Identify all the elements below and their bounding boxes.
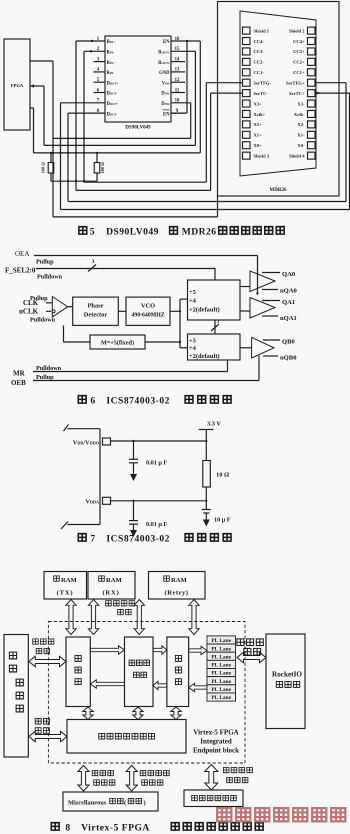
svg-text:100 Ω: 100 Ω [100,162,105,174]
svg-text:X0-: X0- [297,143,305,148]
svg-text:EN: EN [163,112,170,117]
divider A box [188,280,241,320]
svg-text:5: 5 [90,227,95,238]
pin VDD/VDDO [73,438,111,446]
svg-text:8: 8 [65,823,70,834]
svg-text:OEB: OEB [11,379,26,387]
IC edge with break marks [61,425,100,530]
svg-text:Phase: Phase [88,303,104,310]
svg-text:RocketIO: RocketIO [272,671,302,679]
svg-text:÷5: ÷5 [189,338,197,345]
svg-text:3: 3 [92,259,95,265]
FPGA U2 [4,39,30,130]
svg-text:PL Lane: PL Lane [211,671,231,677]
svg-text:(RX): (RX) [102,590,119,597]
svg-text:RIN-: RIN- [107,71,115,76]
svg-text:FPGA: FPGA [11,83,24,88]
wire pin8 net [68,113,105,201]
F_SEL bus into dividers [211,269,220,335]
label management interface [35,718,49,733]
svg-text:SerTFG+: SerTFG+ [286,81,305,86]
svg-text:ICS874003-02: ICS874003-02 [106,534,170,545]
output buffer QA1 [240,298,297,322]
svg-text:MR: MR [13,370,26,378]
wire pin2 net [84,50,105,182]
M divider feedback box [64,325,181,349]
wire FPGA in B with arrowhead [30,84,44,145]
bus line 2 under chip [44,144,195,146]
input buffer triangle [52,297,72,318]
watermark [217,808,345,821]
svg-text:CC4+: CC4+ [293,39,305,44]
wire loop SerTFG+ [68,83,346,202]
label clock reset interface [223,767,252,782]
svg-text:CC1-: CC1- [254,70,265,75]
wire VCO output to dividers [170,299,188,348]
svg-text:OEA: OEA [15,250,29,258]
arrow user-config [29,731,67,741]
svg-text:÷4: ÷4 [189,298,197,305]
VCO box [126,297,170,325]
Virtex-5 FPGA endpoint label [193,729,239,755]
label config status interface [140,770,169,785]
label transport layer interface [33,639,54,654]
svg-text:DOUT+: DOUT+ [107,102,119,107]
svg-text:Pullup: Pullup [30,295,48,302]
svg-text:MDR26: MDR26 [270,188,287,193]
bus line 3 under chip [34,152,201,154]
svg-text:Shield 3: Shield 3 [254,153,270,158]
capacitor C2 0.01uF [129,501,167,537]
bus line 1 under chip [53,137,191,139]
svg-text:QA0: QA0 [282,271,296,278]
svg-text:Miscellaneous: Miscellaneous [68,800,107,807]
svg-text:DOUT-: DOUT- [107,112,118,117]
wire FPGA out C [30,108,34,153]
svg-text:QA1: QA1 [282,299,295,306]
svg-text:X2+: X2+ [254,122,263,127]
wire PD to VCO [118,310,126,312]
svg-text:CC4-: CC4- [254,39,265,44]
resistor R3 10ohm [203,441,229,501]
arrows datalink-physical [153,646,167,690]
svg-text:X0+: X0+ [254,143,263,148]
svg-text:0.01 μ F: 0.01 μ F [146,521,167,528]
svg-text:X3+: X3+ [254,101,263,106]
wire pin16 EN net [171,40,200,153]
svg-text:Virtex-5 FPGA: Virtex-5 FPGA [81,823,150,834]
wire loop SerTFG- [84,83,243,183]
svg-text:÷4: ÷4 [189,345,197,352]
physical layer box [167,637,189,707]
svg-text:0.01 μ F: 0.01 μ F [146,460,167,467]
block RAM Retry box [149,572,206,600]
data link layer box [125,637,154,707]
svg-text:DIN1: DIN1 [161,92,170,97]
pin VDDA [85,497,110,505]
svg-text:6: 6 [90,396,95,407]
RAM interface arrows [66,600,199,635]
wire loop SerTC- [76,93,243,190]
label transceiver interface [237,639,263,655]
label OEB line [11,356,259,387]
MDR26 trapezoid body [240,11,316,193]
svg-text:Xclk-: Xclk- [294,112,305,117]
wire pin10 net [171,103,191,139]
svg-text:10 Ω: 10 Ω [216,472,229,479]
arrow PL-RocketIO [237,652,266,662]
svg-text:nCLK: nCLK [19,308,39,316]
wire resistor bottoms [51,180,97,182]
PL Lane stack [207,636,236,701]
svg-text:(Retry): (Retry) [165,590,189,597]
svg-text:7: 7 [90,534,95,545]
svg-text:RIN+: RIN+ [107,61,116,66]
RocketIO box [266,634,305,729]
svg-text:RAM: RAM [106,577,123,584]
svg-text:): ) [144,800,146,807]
output buffer QA0 [240,271,298,295]
svg-text:VDDA: VDDA [85,499,99,506]
svg-text:Shield 1: Shield 1 [254,28,270,33]
svg-text:DOUT+: DOUT+ [107,81,119,86]
svg-text:CC3+: CC3+ [293,49,305,54]
svg-text:RIN+: RIN+ [107,40,116,45]
svg-text:F_SEL2:0: F_SEL2:0 [5,267,36,275]
svg-text:nQB0: nQB0 [280,355,297,362]
svg-text:DIN2: DIN2 [161,102,170,107]
svg-text:EN: EN [163,40,170,45]
svg-text:490-640MHZ: 490-640MHZ [131,313,164,319]
svg-text:PL Lane: PL Lane [211,679,231,685]
svg-text:Pullup: Pullup [36,374,54,381]
arrows physical-PLlane [189,646,207,691]
caption figure 5 [79,227,284,238]
svg-text:ROUT1: ROUT1 [158,51,170,56]
label MR line [13,360,228,378]
svg-text:MDR26: MDR26 [182,227,217,238]
dashed endpoint boundary [48,622,245,764]
bottom interface arrows [78,765,218,792]
svg-text:10 μ F: 10 μ F [214,517,231,524]
svg-text:Integrated: Integrated [200,738,232,746]
divider B box [188,334,241,360]
svg-text:3: 3 [217,319,220,325]
svg-text:Shield 4: Shield 4 [289,153,305,158]
svg-text:CC1+: CC1+ [293,70,305,75]
svg-text:RIN-: RIN- [107,51,115,56]
svg-text:X1+: X1+ [254,133,263,138]
svg-text:GND: GND [159,71,170,76]
clock and reset box [184,790,243,807]
svg-text:ICS874003-02: ICS874003-02 [106,396,170,407]
svg-text:X3-: X3- [297,101,305,106]
svg-text:Pullup: Pullup [36,259,54,266]
arrows layers to config [83,707,181,720]
svg-text:DS90LV049: DS90LV049 [125,126,151,131]
wire pin7 net [61,103,106,210]
svg-text:PL Lane: PL Lane [211,638,231,644]
arrow user-transport [29,656,66,666]
label block memory interface [106,601,135,615]
svg-text:SerTFG-: SerTFG- [254,81,272,86]
capacitor C3 10uF [202,501,231,527]
label F_SEL2:0 bus [5,259,215,281]
svg-text:÷2(default): ÷2(default) [189,353,220,360]
svg-text:ROUT2: ROUT2 [158,61,170,66]
svg-text:nQA0: nQA0 [280,288,298,295]
label CLK input [23,295,52,307]
svg-text:Shield 2: Shield 2 [289,28,305,33]
svg-text:PL Lane: PL Lane [211,663,231,669]
svg-text:÷5: ÷5 [189,289,197,296]
svg-text:DS90LV049: DS90LV049 [106,227,159,238]
svg-text:Endpoint block: Endpoint block [193,747,239,755]
VDDA rail [111,500,208,502]
arrows transport-datalink [90,646,124,688]
svg-text:VDD: VDD [162,81,171,86]
svg-text:Pulldown: Pulldown [37,274,63,281]
miscellaneous box [63,792,158,811]
svg-text:Virtex-5 FPGA: Virtex-5 FPGA [193,729,238,737]
label OEA with pullup line [15,250,258,266]
caption figure 8 [51,823,263,834]
OEA enable drop [256,256,258,295]
wire loop outer [53,196,218,217]
svg-text:VCO: VCO [141,303,155,310]
caption figure 7 [78,534,231,545]
svg-text:QB0: QB0 [282,338,296,345]
svg-text:CC3-: CC3- [254,49,265,54]
block RAM TX box [44,572,87,600]
svg-text:100 Ω: 100 Ω [41,162,46,174]
block RAM RX box [88,572,135,600]
VDD rail [111,440,208,442]
svg-text:SerTC+: SerTC+ [289,91,305,96]
svg-text:X1-: X1- [297,133,305,138]
caption figure 6 [78,396,231,407]
label power mgmt interface [92,770,115,785]
svg-text:CC2+: CC2+ [293,60,305,65]
capacitor C1 0.01uF [129,441,167,481]
svg-text:PL Lane: PL Lane [211,654,231,660]
svg-text:Detector: Detector [84,312,108,319]
config function module box [67,720,186,754]
svg-text:SerTC-: SerTC- [254,91,269,96]
user application layer box [4,635,28,758]
svg-text:M=÷5(fixed): M=÷5(fixed) [101,340,134,347]
svg-text:PL Lane: PL Lane [211,687,231,693]
resistor R2 100ohm [94,153,105,181]
phase detector box [73,297,119,325]
svg-text:RAM: RAM [61,577,78,584]
IC DS90LV049 U1 [94,36,186,131]
wire pin15 net [171,51,195,145]
svg-text:RAM: RAM [171,577,188,584]
svg-text:DOUT-: DOUT- [107,92,118,97]
resistor R1 100ohm [41,153,54,181]
svg-text:CC2-: CC2- [254,60,265,65]
svg-text:Pulldown: Pulldown [36,365,62,372]
svg-text:X2-: X2- [297,122,305,127]
svg-text:PL Lane: PL Lane [211,695,231,701]
wire FPGA out A [30,61,53,217]
MDR26 pin squares and labels [243,27,316,159]
MDR26 connector J1 outer box [218,2,340,197]
svg-text:(: ( [124,800,126,807]
wire loop SerTC+ [61,92,350,210]
svg-text:Xclk+: Xclk+ [254,112,266,117]
svg-text:÷2(default): ÷2(default) [189,307,220,314]
wire pin1 net [76,40,105,191]
label nCLK input [19,308,56,324]
output buffer QB0 [240,337,297,361]
svg-text:(TX): (TX) [57,590,74,597]
svg-text:nQA1: nQA1 [280,315,297,322]
transport layer box [66,637,90,707]
supply 3.3V [199,421,222,442]
svg-text:3.3 V: 3.3 V [207,421,221,428]
svg-text:PL Lane: PL Lane [211,646,231,652]
svg-text:VDD/VDDO: VDD/VDDO [73,439,100,446]
